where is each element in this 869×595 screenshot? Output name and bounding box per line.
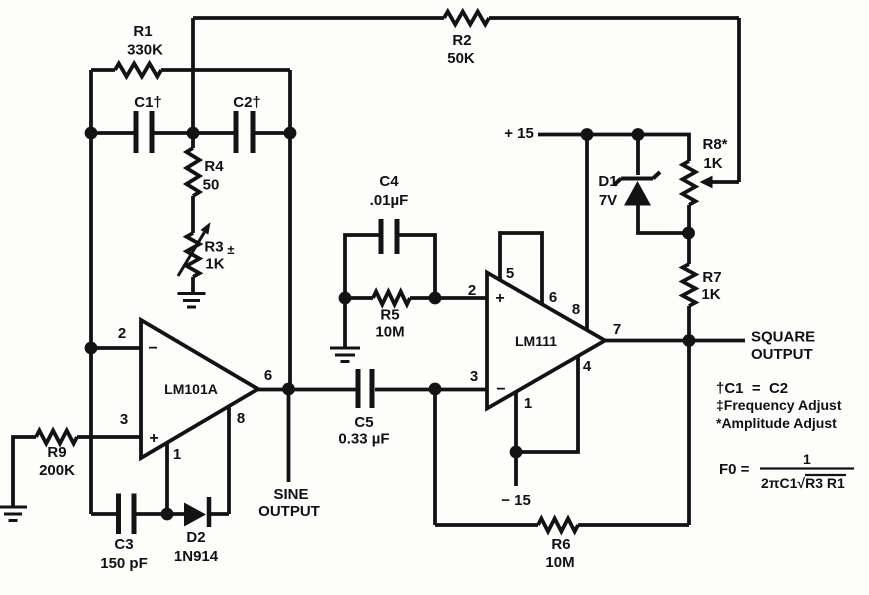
zener D1 cathode bar [614,172,660,185]
wire D1 cathode to +15 [636,135,640,176]
wire R6 row [435,523,689,527]
capacitor C3 [119,494,135,535]
svg-text:5: 5 [506,265,514,282]
junction node U1 pin 2 [85,342,98,355]
junction node U2 pin1-pin4 / -15 [510,446,523,459]
wire right vertical feedback x=290 [288,70,292,389]
wire R9 to U1 pin 3 [77,435,141,439]
svg-text:R8*: R8* [702,136,727,153]
wire R9 left to ground [13,437,36,506]
svg-text:R3: R3 [204,239,223,256]
potentiometer R8 wiper wire [711,180,739,184]
formula fraction bar and radical overline [760,469,854,476]
svg-text:330K: 330K [127,42,163,59]
resistor R2 [444,12,489,25]
svg-text:C5: C5 [354,414,373,431]
wire left lower vertical from C5 node to R6 [433,389,437,525]
junction node +15 / U2 pin 8 [581,128,594,141]
ground for R5 [330,348,360,362]
resistor R4 [187,148,200,196]
junction node C2 right [284,127,297,140]
svg-text:R4: R4 [204,158,224,175]
wire R3 to ground [191,277,195,292]
svg-text:D1: D1 [598,173,617,190]
junction node D1-R8-R7 [682,227,695,240]
svg-text:10M: 10M [375,324,404,341]
resistor R9 [36,431,77,444]
rheostat R3 arrow [178,232,204,276]
wire middle vertical from top net to node C1-C2 [191,18,195,133]
svg-text:2: 2 [468,282,476,299]
wire R1 row [91,68,290,72]
junction node R5 left [339,292,352,305]
svg-text:LM111: LM111 [515,333,557,349]
svg-text:4: 4 [583,358,592,375]
svg-text:200K: 200K [39,462,75,479]
junction node square output [683,334,696,347]
diode D2 body [184,503,206,527]
svg-text:C1†: C1† [134,94,162,111]
svg-text:†C1 = C2: †C1 = C2 [716,380,788,397]
capacitor C1 [136,111,152,153]
wire C4 loop [345,235,435,298]
svg-text:D2: D2 [186,529,205,546]
svg-text:− 15: − 15 [501,492,531,509]
wire R8 bottom [687,205,691,233]
svg-text:6: 6 [549,289,557,306]
comparator U2 LM111 body [487,273,605,409]
junction node C1-C2 center [187,127,200,140]
wire +15 row [538,135,689,162]
svg-text:7: 7 [613,321,621,338]
wire bottom net C3 D2 [91,512,229,516]
svg-text:1K: 1K [205,256,224,273]
svg-text:C3: C3 [114,536,133,553]
wire U2 pin 5 to pin 6 loop [500,233,542,304]
svg-text:C2†: C2† [233,94,261,111]
svg-text:0.33 µF: 0.33 µF [338,431,389,448]
ground for R3 [178,294,206,308]
svg-text:1: 1 [524,395,532,412]
svg-text:LM101A: LM101A [164,381,218,397]
resistor R6 [538,519,578,532]
svg-text:8: 8 [572,301,580,318]
svg-text:R7: R7 [702,269,721,286]
svg-text:R5: R5 [380,307,399,324]
svg-text:50K: 50K [447,50,475,67]
svg-text:1K: 1K [701,286,720,303]
svg-text:SINE: SINE [273,486,308,503]
svg-text:‡Frequency Adjust: ‡Frequency Adjust [716,397,842,413]
svg-text:3: 3 [120,411,128,428]
wire R7 top [687,233,691,264]
svg-text:10M: 10M [545,554,574,571]
svg-text:OUTPUT: OUTPUT [751,346,813,363]
svg-text:1: 1 [173,446,181,463]
svg-text:OUTPUT: OUTPUT [258,503,320,520]
capacitor C2 [236,111,253,153]
svg-text:SQUARE: SQUARE [751,329,815,346]
svg-text:+ 15: + 15 [504,125,534,142]
svg-text:R2: R2 [452,32,471,49]
svg-text:2πC1√R3 R1: 2πC1√R3 R1 [761,475,845,491]
svg-text:3: 3 [470,368,478,385]
wire R4 to R3 [191,133,195,233]
op-amp U1 LM101A body [141,320,258,458]
wire right lower vertical to R6 [687,341,691,526]
potentiometer R8 [683,161,696,205]
svg-text:−: − [148,340,157,357]
wire right vertical from R2 row down to R8 wiper [737,18,741,182]
wire U1 pin 1 [165,443,169,514]
svg-text:R6: R6 [551,536,570,553]
wire R7 bottom [687,306,691,341]
svg-text:6: 6 [264,367,272,384]
wire D1 anode to R8 bottom [638,205,689,233]
svg-text:R9: R9 [47,444,66,461]
svg-text:2: 2 [118,325,126,342]
svg-text:F0 =: F0 = [719,461,750,478]
resistor R7 [683,264,696,306]
wire top net (R2 row) left segment [193,16,444,20]
capacitor C5 [358,369,372,408]
junction node C5 / U2 pin 3 [429,383,442,396]
wire left vertical x=91 [89,70,93,514]
svg-text:*Amplitude Adjust: *Amplitude Adjust [716,415,837,431]
wire sine output stem [287,389,291,482]
svg-text:C4: C4 [379,173,399,190]
svg-text:7V: 7V [599,192,617,209]
svg-text:50: 50 [203,177,220,194]
svg-text:±: ± [227,242,234,257]
svg-text:.01µF: .01µF [370,192,409,209]
ground for R9 [0,507,27,521]
junction node +15 / D1 [632,128,645,141]
junction node C1 left [85,127,98,140]
diode D2 cathode bar [207,497,212,527]
wire U2 pin 8 to +15 [585,135,589,331]
zener D1 body [624,181,651,206]
rheostat R3 [187,233,200,277]
svg-text:−: − [496,381,505,398]
svg-text:1N914: 1N914 [174,548,219,565]
svg-text:8: 8 [237,410,245,427]
wire R5 ground stem [343,298,347,347]
wire U2 pin 1 [514,392,518,452]
junction node R5 right [429,292,442,305]
wire square output row [605,339,745,343]
wire U1 output to C5 to U2 pin 3 [258,388,487,392]
capacitor C4 [381,219,397,254]
wire U1 pin 8 [227,406,231,514]
potentiometer R8 wiper arrowhead [700,176,713,189]
svg-text:1K: 1K [703,155,722,172]
svg-text:+: + [495,290,504,307]
rheostat R3 arrowhead [201,222,211,235]
wire U1 pin 2 [91,346,141,350]
resistor R5 [373,292,410,305]
svg-text:1: 1 [803,451,811,467]
wire U2 pin 4 [516,356,578,452]
wire R5 row to U2 pin 2 [345,296,487,300]
junction node C3-D2 [161,508,174,521]
wire C1-C2 row [91,131,290,135]
svg-text:R1: R1 [133,23,152,40]
resistor R1 [115,64,161,77]
junction node U1 output / sine [282,383,295,396]
wire -15 stem [514,452,518,486]
svg-text:150 pF: 150 pF [100,555,148,572]
wire top net (R2 row) right segment [489,16,739,20]
svg-text:+: + [149,430,158,447]
